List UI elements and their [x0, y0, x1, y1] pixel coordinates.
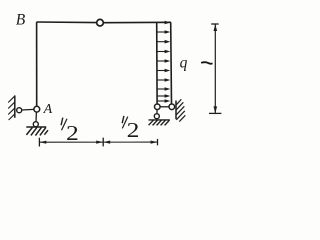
svg-text:2: 2 — [66, 122, 79, 145]
svg-text:A: A — [43, 102, 53, 117]
svg-text:B: B — [16, 12, 26, 29]
svg-text:q: q — [180, 55, 188, 72]
svg-text:2: 2 — [127, 119, 140, 142]
